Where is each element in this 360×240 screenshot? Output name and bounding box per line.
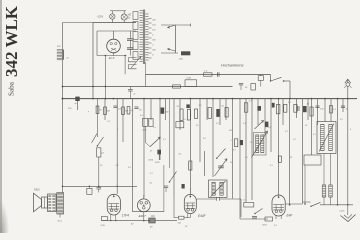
svg-text:0,1: 0,1 [243,123,246,125]
svg-text:0,1: 0,1 [177,106,180,108]
svg-text:0,1: 0,1 [108,121,111,123]
svg-text:E4F7: E4F7 [139,214,147,218]
svg-text:0,1: 0,1 [270,165,273,167]
svg-text:17F4: 17F4 [122,213,129,217]
svg-text:~220V: ~220V [97,17,104,19]
svg-text:0,1: 0,1 [285,131,288,133]
svg-text:12 F: 12 F [109,56,115,60]
svg-text:0,1: 0,1 [333,109,336,111]
svg-text:0,1: 0,1 [313,134,316,136]
svg-text:2M: 2M [106,111,110,113]
svg-text:E44F: E44F [198,214,207,218]
svg-text:M0,1: M0,1 [263,225,268,227]
svg-text:0,1: 0,1 [245,157,248,159]
svg-text:Hochantenne: Hochantenne [221,64,244,68]
svg-text:0,1: 0,1 [150,173,153,175]
svg-text:m0,5: m0,5 [340,211,346,213]
svg-text:0,1: 0,1 [150,183,153,185]
svg-text:0,1: 0,1 [118,109,121,111]
svg-text:1M: 1M [125,111,128,113]
svg-text:N510: N510 [34,189,40,192]
svg-text:0,1: 0,1 [100,110,103,112]
svg-text:0,1: 0,1 [244,200,247,202]
svg-text:0,1: 0,1 [163,139,166,141]
svg-text:250: 250 [178,59,183,61]
svg-text:MZ: MZ [128,15,132,17]
svg-text:0,1: 0,1 [116,165,119,167]
svg-text:0,1: 0,1 [216,123,219,125]
svg-text:0,1: 0,1 [274,225,277,227]
svg-text:0,1: 0,1 [249,101,252,103]
svg-text:Saba: Saba [8,81,16,96]
svg-text:342 WLK: 342 WLK [2,5,21,77]
svg-text:0,1: 0,1 [233,150,236,152]
